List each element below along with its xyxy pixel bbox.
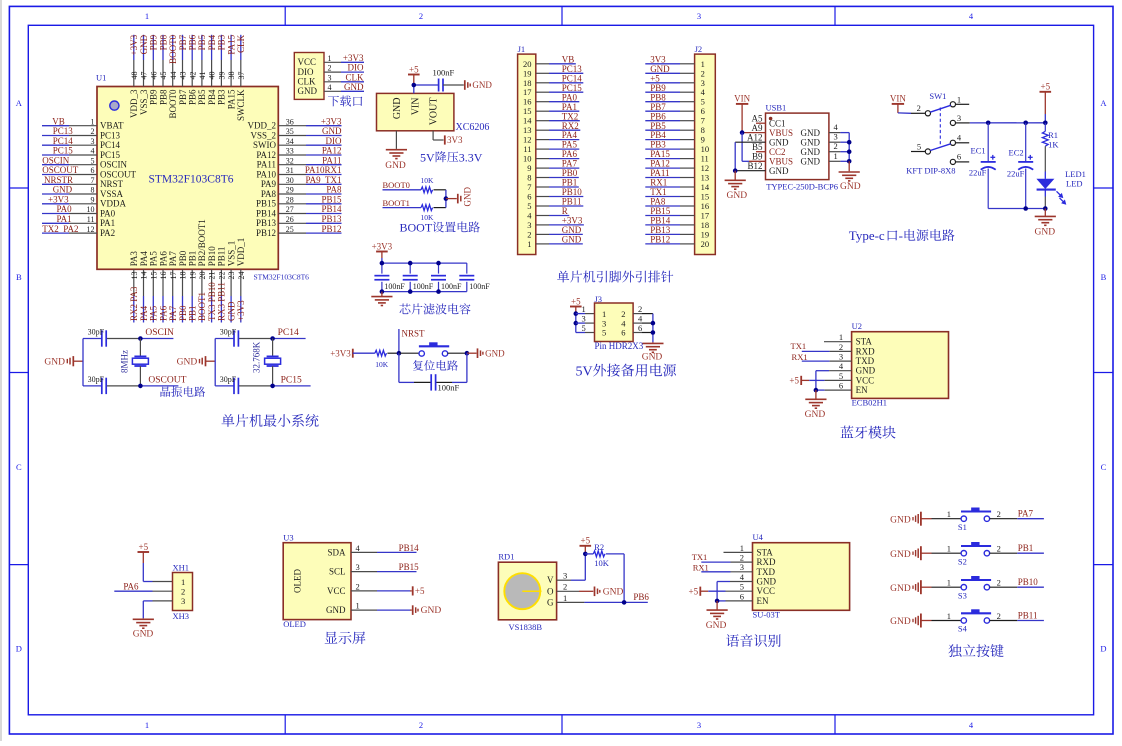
svg-text:GND: GND <box>890 584 911 594</box>
wire crystal left rail <box>214 339 216 386</box>
svg-text:PB14: PB14 <box>399 543 420 553</box>
svg-text:4: 4 <box>839 361 844 371</box>
svg-text:5V: 5V <box>576 364 593 379</box>
ic U4 pin names <box>757 547 777 606</box>
svg-text:11: 11 <box>523 144 531 154</box>
svg-text:RX3 PB11: RX3 PB11 <box>217 282 227 321</box>
svg-text:PB11: PB11 <box>1018 611 1038 621</box>
svg-text:100nF: 100nF <box>469 282 490 291</box>
svg-text:19: 19 <box>188 272 197 280</box>
svg-text:J1: J1 <box>518 44 526 54</box>
switch SW1 contacts <box>925 102 955 165</box>
svg-text:VB: VB <box>562 54 575 64</box>
capacitor 100nF filter 3 <box>431 263 462 292</box>
connector USB1 right pins wires <box>829 122 849 161</box>
power +5 at U3 <box>413 586 425 596</box>
svg-text:TX3 PB10: TX3 PB10 <box>207 282 217 321</box>
svg-text:7: 7 <box>527 182 531 192</box>
wire filter caps to ground <box>381 292 383 297</box>
ic RD1 pin names <box>547 575 554 607</box>
connector XH1 pin numbers <box>181 577 185 606</box>
svg-text:+3V3: +3V3 <box>129 34 139 55</box>
wire bottom rail to ground <box>1044 209 1046 216</box>
wire B12 to ground <box>734 171 736 180</box>
svg-text:DIO: DIO <box>326 136 342 146</box>
svg-text:OSCOUT: OSCOUT <box>148 375 186 385</box>
svg-text:PC15: PC15 <box>281 375 302 385</box>
capacitor 100nF filter 2 <box>403 263 434 292</box>
svg-text:OSCIN: OSCIN <box>100 160 128 170</box>
ic U1 left pins 1-12 wires <box>42 126 97 233</box>
svg-text:30: 30 <box>286 176 294 185</box>
svg-text:PA1: PA1 <box>100 218 115 228</box>
svg-text:PB13: PB13 <box>650 225 671 235</box>
svg-text:42: 42 <box>188 72 197 80</box>
svg-text:PB8: PB8 <box>158 34 168 50</box>
power 3V3 at VOUT <box>445 135 463 145</box>
svg-text:1: 1 <box>947 544 951 554</box>
svg-text:27: 27 <box>286 205 294 214</box>
junction J3 right pins <box>651 321 656 335</box>
regulator XC6206 pin names <box>392 98 440 126</box>
svg-text:17: 17 <box>169 272 178 280</box>
ic U3 pin names <box>326 547 346 615</box>
power +5 at RD1 <box>580 536 592 554</box>
power VIN at SW1 <box>890 94 906 113</box>
connector J3 right pin numbers outside <box>638 304 643 333</box>
svg-text:10K: 10K <box>421 176 435 185</box>
wire VIN vertical to B9 <box>742 133 765 162</box>
svg-text:SU-03T: SU-03T <box>753 609 781 619</box>
wire U4 GND pin bend <box>717 582 752 601</box>
connector J1 body <box>518 54 536 254</box>
svg-text:5V: 5V <box>420 150 435 164</box>
caption 5V backup power <box>576 364 677 380</box>
node NRST label and stub <box>399 329 425 354</box>
svg-text:PB0: PB0 <box>178 305 188 321</box>
svg-text:PA5: PA5 <box>562 140 578 150</box>
caption chip filter caps <box>399 303 470 314</box>
ground GND at J3 <box>642 343 664 362</box>
svg-text:BOOT1: BOOT1 <box>197 292 207 321</box>
svg-text:+3V3: +3V3 <box>321 116 342 126</box>
svg-text:8: 8 <box>91 186 95 195</box>
svg-text:2: 2 <box>997 578 1001 588</box>
wire +5 to VCC of U4 <box>700 590 752 592</box>
svg-text:1: 1 <box>527 239 531 249</box>
ic U2 pin names <box>856 337 876 395</box>
svg-text:4: 4 <box>834 122 839 132</box>
svg-text:OLED: OLED <box>293 569 303 593</box>
svg-text:GND: GND <box>177 358 198 368</box>
svg-text:PC15: PC15 <box>100 150 121 160</box>
svg-text:PB5: PB5 <box>197 89 207 105</box>
svg-text:43: 43 <box>179 72 188 80</box>
svg-text:PB14: PB14 <box>256 208 277 218</box>
svg-text:32.768K: 32.768K <box>252 341 262 373</box>
ic U1 top pin numbers <box>130 72 246 80</box>
connector J3 inside pin numbers <box>602 309 626 338</box>
ground GND at S1 <box>890 512 921 526</box>
wire J3 right pins <box>633 314 653 333</box>
connector J2 body <box>695 54 716 254</box>
svg-text:B: B <box>16 272 22 282</box>
svg-text:47: 47 <box>140 72 149 80</box>
svg-text:2: 2 <box>181 587 185 597</box>
capacitor 30pF bottom <box>88 375 107 394</box>
resistor R1 1K <box>1042 123 1059 150</box>
svg-text:PA0: PA0 <box>562 92 578 102</box>
ic U1 STM32F103C8T6 body <box>97 87 278 270</box>
ic RD1 lens circle <box>504 573 541 609</box>
svg-text:PB12: PB12 <box>256 228 276 238</box>
capacitor 30pF top <box>88 328 107 347</box>
wire ground to S1 <box>921 518 961 520</box>
connector download-port pin names <box>298 57 318 96</box>
svg-text:PA15: PA15 <box>226 89 236 109</box>
svg-text:XH3: XH3 <box>173 611 190 621</box>
svg-text:1: 1 <box>957 94 961 104</box>
svg-text:CLK: CLK <box>298 77 317 87</box>
svg-text:SWIO: SWIO <box>253 140 276 150</box>
svg-text:1: 1 <box>91 117 95 126</box>
connector J3 left pin numbers outside <box>582 304 586 333</box>
svg-text:+3V3: +3V3 <box>343 53 364 63</box>
svg-text:RD1: RD1 <box>498 551 514 561</box>
node U1 top net labels <box>129 34 246 64</box>
svg-text:PB1: PB1 <box>188 251 198 267</box>
ic U1 bottom pins 13-24 wires <box>134 269 241 322</box>
wire ground to S2 <box>921 552 961 554</box>
svg-text:PB9: PB9 <box>149 34 159 50</box>
connector XH1 body <box>173 573 193 611</box>
capacitor EC1 22uF <box>969 123 996 209</box>
svg-text:GND: GND <box>856 366 876 376</box>
svg-text:15: 15 <box>701 192 710 202</box>
node U1 right net labels <box>305 116 342 233</box>
svg-text:GND: GND <box>322 126 342 136</box>
svg-text:BOOT: BOOT <box>400 221 433 235</box>
svg-text:EC1: EC1 <box>971 146 986 156</box>
svg-text:PA8: PA8 <box>326 185 342 195</box>
svg-text:24: 24 <box>237 272 246 280</box>
wire crystal bottom rail <box>215 385 310 387</box>
svg-text:PB4: PB4 <box>207 34 217 50</box>
svg-text:6: 6 <box>839 381 843 391</box>
wire BOOT0 <box>383 189 446 191</box>
svg-text:GND: GND <box>650 64 670 74</box>
svg-text:+5: +5 <box>571 296 581 306</box>
svg-text:5: 5 <box>740 582 744 592</box>
wire U3 SDA with PB14 label <box>351 543 419 553</box>
crystal 32.768K <box>252 339 281 386</box>
svg-text:3: 3 <box>834 132 838 142</box>
svg-text:+5: +5 <box>581 536 591 546</box>
wire A12 GND <box>735 142 765 171</box>
svg-text:Pin HDR2X3: Pin HDR2X3 <box>595 341 644 351</box>
wire B5 CC2 stub <box>756 151 766 153</box>
wire ground to S3 <box>921 586 961 588</box>
node PC14 <box>278 328 299 338</box>
svg-text:GND: GND <box>801 137 821 147</box>
wire ground to S4 <box>921 620 961 622</box>
power +5 at XH1 <box>138 542 150 563</box>
svg-text:B5: B5 <box>752 142 763 152</box>
svg-text:BOOT1: BOOT1 <box>383 198 410 208</box>
caption download port <box>328 95 362 106</box>
resistor 10K reset <box>375 350 389 369</box>
svg-text:VCC: VCC <box>757 586 776 596</box>
svg-text:R1: R1 <box>1048 130 1058 140</box>
svg-text:PB0: PB0 <box>562 168 578 178</box>
svg-text:OLED: OLED <box>283 619 306 629</box>
svg-text:PB6: PB6 <box>188 34 198 50</box>
svg-text:4: 4 <box>957 133 962 143</box>
svg-text:PA7: PA7 <box>1018 509 1034 519</box>
svg-text:PB12: PB12 <box>650 235 670 245</box>
svg-text:PB14: PB14 <box>650 216 671 226</box>
svg-text:GND: GND <box>53 185 73 195</box>
svg-text:PC14: PC14 <box>100 140 121 150</box>
power +5 at LED rail <box>1040 82 1052 123</box>
svg-text:TX1: TX1 <box>650 187 667 197</box>
svg-text:4: 4 <box>701 87 706 97</box>
wire USB1 right bus to ground <box>848 161 850 171</box>
svg-text:ECB02H1: ECB02H1 <box>852 397 887 407</box>
svg-text:13: 13 <box>130 272 139 280</box>
svg-text:+3V3: +3V3 <box>236 300 246 321</box>
wire filter caps bottom rail <box>382 291 467 293</box>
svg-text:+5: +5 <box>689 586 699 596</box>
svg-text:BOOT0: BOOT0 <box>168 34 178 63</box>
svg-text:2: 2 <box>563 582 567 592</box>
power +5 at U4 <box>689 586 701 596</box>
svg-text:B12: B12 <box>747 161 762 171</box>
svg-text:RX2 PA3: RX2 PA3 <box>129 286 139 321</box>
svg-text:VB: VB <box>52 116 65 126</box>
svg-text:23: 23 <box>227 272 236 280</box>
wire USB1 right vertical bus <box>848 133 850 162</box>
ground GND below USB1 right <box>839 172 861 192</box>
svg-text:14: 14 <box>523 116 532 126</box>
caption type-c power circuit <box>849 228 955 243</box>
connector J1 pins and wires <box>536 64 584 244</box>
svg-text:VDD_1: VDD_1 <box>236 238 246 267</box>
svg-text:U2: U2 <box>852 321 862 331</box>
svg-text:19: 19 <box>701 229 710 239</box>
node TX1 label at U4 <box>692 552 753 562</box>
svg-text:STA: STA <box>856 337 873 347</box>
wire resistor to junction <box>387 352 399 354</box>
svg-text:8: 8 <box>527 173 531 183</box>
wire +5 down to XH1 pin1 <box>143 563 172 582</box>
ic U1 bottom pin numbers <box>130 272 246 280</box>
node J2 net labels <box>650 54 671 244</box>
svg-text:2: 2 <box>638 304 642 314</box>
ic U1 left pin names <box>100 121 137 238</box>
wire S2 to PB1 <box>990 543 1044 553</box>
caption U2 <box>841 426 896 439</box>
svg-text:5: 5 <box>917 142 921 152</box>
caption U4 <box>726 634 781 647</box>
wire U3 VCC to +5 <box>351 590 412 592</box>
svg-text:PA6: PA6 <box>562 149 578 159</box>
svg-text:GND: GND <box>801 128 821 138</box>
junction dots filter caps <box>380 261 441 294</box>
wire EN pin of U4 <box>717 600 752 602</box>
ground GND crystal <box>177 356 216 367</box>
svg-text:U1: U1 <box>96 73 106 83</box>
wire BOOT junction to ground <box>446 198 457 200</box>
ground GND below XC6206 <box>385 150 407 171</box>
svg-text:1: 1 <box>740 543 744 553</box>
svg-text:GND: GND <box>44 358 65 368</box>
svg-text:U4: U4 <box>753 532 764 542</box>
wire U3 GND pin <box>351 609 412 611</box>
svg-text:1: 1 <box>602 309 606 319</box>
svg-text:STM32F103C8T6: STM32F103C8T6 <box>254 272 310 281</box>
connector J2 pins and wires <box>645 64 694 244</box>
svg-text:GND: GND <box>298 86 318 96</box>
svg-text:PA6: PA6 <box>158 305 168 321</box>
ic U1 top pins 37-48 wires <box>134 35 241 87</box>
node U1 bottom net labels <box>129 282 246 321</box>
svg-text:6: 6 <box>701 106 705 116</box>
svg-text:3: 3 <box>91 137 95 146</box>
switch SW1 pin numbers <box>917 94 962 161</box>
svg-text:PC13: PC13 <box>562 64 583 74</box>
junction crystal bottom <box>138 384 143 389</box>
svg-text:TX1: TX1 <box>692 552 708 562</box>
svg-text:RXD: RXD <box>757 557 777 567</box>
node U1 left net labels <box>42 116 79 233</box>
resistor R2 10K <box>585 542 609 568</box>
svg-text:1: 1 <box>181 577 185 587</box>
svg-text:PB7: PB7 <box>178 89 188 105</box>
svg-text:GND: GND <box>706 621 727 631</box>
svg-text:PA0: PA0 <box>57 204 73 214</box>
svg-text:4: 4 <box>91 147 95 156</box>
svg-text:VDDA: VDDA <box>100 199 126 209</box>
svg-text:3: 3 <box>356 562 360 572</box>
svg-text:VOUT: VOUT <box>429 98 440 126</box>
svg-text:25: 25 <box>286 225 294 234</box>
svg-text:PA2: PA2 <box>100 228 115 238</box>
svg-text:VDD_3: VDD_3 <box>129 89 139 118</box>
svg-text:+3V3: +3V3 <box>48 195 69 205</box>
junction bottom rail <box>1023 206 1047 211</box>
svg-text:TYPEC-250D-BCP6: TYPEC-250D-BCP6 <box>766 181 838 191</box>
svg-text:8MHz: 8MHz <box>120 350 130 373</box>
resistor 10K lower BOOT <box>421 205 435 222</box>
svg-text:4: 4 <box>969 720 974 730</box>
svg-text:PB8: PB8 <box>650 92 666 102</box>
svg-text:PA4: PA4 <box>139 251 149 267</box>
svg-text:11: 11 <box>701 154 709 164</box>
svg-text:6: 6 <box>638 323 642 333</box>
svg-text:LED1: LED1 <box>1065 169 1086 179</box>
svg-text:SWCLK: SWCLK <box>236 89 246 121</box>
svg-text:9: 9 <box>91 196 95 205</box>
svg-text:10K: 10K <box>594 558 610 568</box>
ground GND at S4 <box>890 614 921 628</box>
svg-text:VS1838B: VS1838B <box>509 622 543 632</box>
junction at U2 EN row <box>814 388 819 393</box>
svg-text:PA9 TX1: PA9 TX1 <box>305 175 341 185</box>
svg-text:16: 16 <box>523 97 532 107</box>
node RX1 label at U4 <box>693 563 753 573</box>
resistor 10K upper BOOT <box>421 176 435 193</box>
caption 5V to 3.3V <box>420 150 483 164</box>
svg-text:J2: J2 <box>695 44 703 54</box>
wire B12 GND <box>735 170 765 172</box>
svg-text:3: 3 <box>697 11 701 21</box>
connector J3 body <box>595 303 634 342</box>
svg-text:BOOT0: BOOT0 <box>383 180 410 190</box>
svg-text:VSS_2: VSS_2 <box>250 130 276 140</box>
svg-text:PA7: PA7 <box>168 305 178 321</box>
svg-text:+3V3: +3V3 <box>330 349 351 359</box>
svg-text:16: 16 <box>701 201 710 211</box>
node PC15 <box>281 375 302 385</box>
svg-text:5: 5 <box>839 371 843 381</box>
svg-text:37: 37 <box>237 72 246 80</box>
svg-text:2: 2 <box>527 229 531 239</box>
ic U2 pin numbers <box>839 332 844 390</box>
svg-text:PB3: PB3 <box>217 34 227 50</box>
svg-text:GND: GND <box>326 605 346 615</box>
svg-text:20: 20 <box>198 272 207 280</box>
svg-text:9: 9 <box>701 135 705 145</box>
ground GND at RD1 <box>595 587 624 598</box>
wire cap to ground bar <box>428 84 464 86</box>
ground GND at S2 <box>890 546 921 560</box>
svg-text:PB1: PB1 <box>188 305 198 321</box>
svg-text:100nF: 100nF <box>384 282 405 291</box>
caption crystal circuit <box>161 386 206 397</box>
svg-text:5: 5 <box>602 328 606 338</box>
ic U4 pin numbers <box>740 543 745 602</box>
svg-text:D: D <box>16 644 22 654</box>
connector download-port pins and wires <box>324 62 364 91</box>
svg-text:21: 21 <box>208 272 217 280</box>
pushbutton S4 <box>947 609 1001 633</box>
svg-text:19: 19 <box>523 68 532 78</box>
svg-text:6: 6 <box>527 192 531 202</box>
wire J3 left pins <box>576 314 595 333</box>
svg-text:PA4: PA4 <box>562 130 578 140</box>
svg-text:GND: GND <box>392 98 403 120</box>
svg-text:30pF: 30pF <box>220 375 237 384</box>
svg-text:U3: U3 <box>283 533 293 543</box>
ground GND below U4 <box>706 610 728 631</box>
svg-text:GND: GND <box>642 353 663 363</box>
wire BOOT1 <box>383 207 446 209</box>
svg-text:PA10: PA10 <box>256 169 276 179</box>
svg-text:NRSTR: NRSTR <box>44 175 73 185</box>
svg-text:29: 29 <box>286 186 294 195</box>
svg-text:GND: GND <box>840 182 861 192</box>
svg-text:PA11: PA11 <box>257 160 276 170</box>
svg-text:A12: A12 <box>747 132 763 142</box>
wire U2 GND pin bend <box>816 371 852 390</box>
wire J3 right vertical <box>652 314 654 343</box>
ic U4 pin 1 stub wire <box>724 551 753 553</box>
connector J1 pin numbers <box>523 59 532 249</box>
junction at U4 EN row <box>715 599 720 604</box>
wire RD1 V pin to +5 <box>557 554 586 580</box>
svg-text:PC13: PC13 <box>53 126 74 136</box>
